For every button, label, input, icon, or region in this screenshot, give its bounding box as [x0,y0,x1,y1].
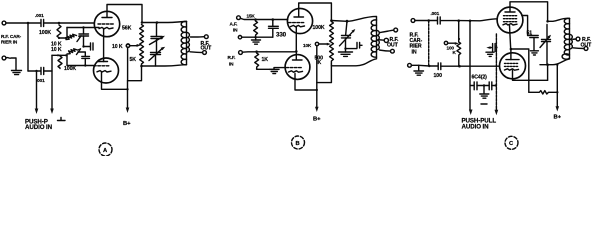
svg-text:IN: IN [412,50,417,56]
svg-text:.001: .001 [36,78,45,83]
svg-text:100K: 100K [39,30,51,36]
svg-text:.001: .001 [35,13,44,18]
svg-text:AUDIO IN: AUDIO IN [462,124,490,131]
svg-text:IN: IN [229,62,234,67]
svg-text:100: 100 [434,73,443,79]
svg-text:1K: 1K [262,57,269,63]
svg-text:A.F.: A.F. [230,22,238,27]
svg-text:IN: IN [233,28,238,33]
svg-text:R.F. CAR-: R.F. CAR- [1,34,22,39]
svg-text:B+: B+ [313,117,321,123]
svg-text:15K: 15K [247,14,256,19]
svg-text:B+: B+ [123,121,131,127]
svg-text:R.F.: R.F. [228,55,236,60]
svg-text:100K: 100K [313,25,325,31]
svg-text:5K: 5K [130,57,137,63]
svg-text:AUDIO IN: AUDIO IN [25,124,53,131]
svg-text:K: K [318,60,322,66]
svg-text:56K: 56K [122,26,132,32]
svg-text:330: 330 [276,32,287,39]
svg-text:10K: 10K [303,43,312,48]
svg-text:6C4(2): 6C4(2) [472,75,488,81]
svg-text:10 K: 10 K [51,47,62,53]
svg-text:B: B [296,141,300,147]
svg-text:B+: B+ [554,115,562,121]
svg-text:RIER IN: RIER IN [1,40,18,45]
svg-text:OUT: OUT [581,43,593,49]
svg-text:.001: .001 [431,11,440,16]
svg-text:OUT: OUT [387,43,399,49]
svg-text:100K: 100K [64,66,76,72]
svg-text:OUT: OUT [201,46,213,52]
svg-text:10 K: 10 K [112,44,123,50]
